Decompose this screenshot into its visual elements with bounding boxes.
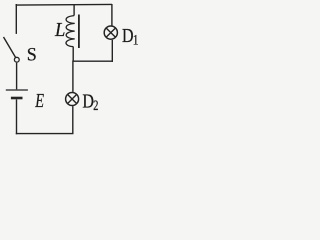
wire top horizontal xyxy=(16,3,112,6)
svg-text:D: D xyxy=(122,24,134,46)
lamp D2 circle xyxy=(66,93,79,106)
lamp D2 cross xyxy=(68,94,77,103)
svg-text:S: S xyxy=(27,44,37,64)
svg-text:1: 1 xyxy=(133,31,139,48)
wire inductor branch top xyxy=(73,5,75,16)
switch S contact circle xyxy=(14,57,19,62)
svg-text:E: E xyxy=(34,89,44,112)
wire D2 branch upper xyxy=(72,61,74,92)
wire middle horizontal (junction to right branch) xyxy=(73,60,113,62)
lamp D1 circle xyxy=(104,26,117,39)
iron core line xyxy=(78,15,80,49)
lamp D1 cross xyxy=(106,28,115,37)
battery E short plate xyxy=(11,97,23,100)
wire left vertical upper (to switch fixed contact) xyxy=(15,4,17,34)
svg-text:D: D xyxy=(82,90,94,112)
switch S blade xyxy=(4,37,16,58)
wire D2 branch lower xyxy=(72,106,74,134)
inductor L coil xyxy=(66,16,75,47)
battery E long plate xyxy=(6,89,28,91)
wire right vertical lower (junction to D1) xyxy=(111,40,113,62)
svg-text:2: 2 xyxy=(93,97,98,113)
wire left vertical lower (battery to bottom) xyxy=(16,99,18,134)
wire right vertical upper (top wire to D1) xyxy=(111,4,113,26)
wire left vertical mid (switch to battery) xyxy=(16,63,18,90)
wire inductor tail to junction xyxy=(72,47,74,62)
svg-text:L: L xyxy=(54,19,65,41)
wire bottom horizontal xyxy=(16,133,74,135)
